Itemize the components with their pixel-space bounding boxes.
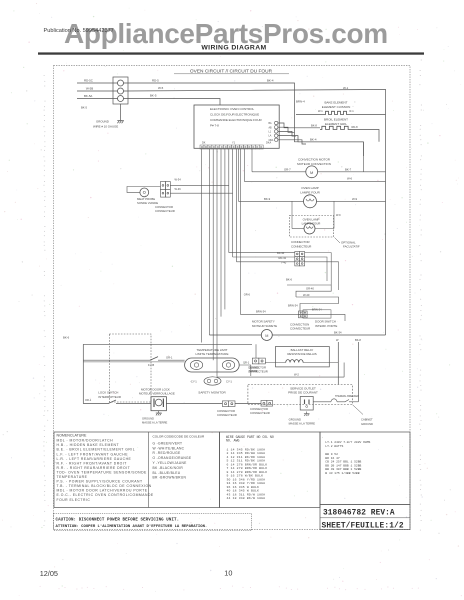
wire probe to harness a (170, 184, 229, 186)
wire harness 3 (212, 149, 214, 360)
wire box to bus (352, 401, 358, 403)
wire drop to J4 (255, 344, 257, 358)
svg-text:10: 10 (224, 569, 232, 578)
svg-text:ATTENTION: COUPER L'ALIMENTATI: ATTENTION: COUPER L'ALIMENTATION AVANT D… (56, 524, 208, 529)
svg-text:LIMITE TEMPERATURE: LIMITE TEMPERATURE (196, 352, 229, 356)
wire J3 to door switch circuit (307, 314, 345, 321)
svg-text:W-9: W-9 (336, 214, 341, 217)
wire lock motor to J5 (166, 403, 222, 405)
ground outlet (304, 412, 310, 417)
svg-text:DKA: DKA (266, 142, 271, 145)
svg-text:NO. AWG: NO. AWG (226, 439, 239, 443)
wire to J2 pin3 (237, 261, 295, 263)
motor brushes (153, 399, 155, 408)
svg-text:CONNECTEUR: CONNECTEUR (217, 413, 237, 417)
svg-text:CY-1: CY-1 (226, 379, 232, 383)
svg-text:MASSE A LA TERRE: MASSE A LA TERRE (142, 421, 168, 425)
broil element resistor (320, 126, 350, 129)
EOC relay contact L1 (275, 130, 278, 133)
breaker symbol (313, 399, 349, 402)
svg-text:E.O.C.- ELECTRIC OVEN CONTROL/: E.O.C.- ELECTRIC OVEN CONTROL/COMMANDE (57, 493, 154, 497)
svg-text:LAMPE FOUR: LAMPE FOUR (300, 191, 320, 195)
wire BK-9 to oven lamp (238, 200, 303, 202)
svg-text:RESISTANCE RELAIS: RESISTANCE RELAIS (287, 352, 316, 356)
svg-text:FOUR ELECTRIC: FOUR ELECTRIC (57, 498, 91, 502)
wire EOC L1 (278, 131, 296, 136)
svg-text:AB: AB (269, 126, 273, 129)
svg-text:COMMANDE ELECTRONIQUE FOUR: COMMANDE ELECTRONIQUE FOUR (210, 118, 263, 122)
svg-text:RD-43: RD-43 (279, 256, 287, 260)
svg-text:INTERRUPTEUR: INTERRUPTEUR (98, 395, 121, 399)
svg-text:BK-5A: BK-5A (84, 94, 92, 98)
svg-text:RD-8: RD-8 (352, 125, 359, 129)
svg-text:GROUND: GROUND (96, 120, 109, 124)
EOC relay contact LA (275, 134, 278, 137)
wire probe loop (127, 187, 161, 193)
wire bus BK down (357, 342, 359, 402)
svg-text:CAUTION: DISCONNECT POWER BEFO: CAUTION: DISCONNECT POWER BEFORE SERVICI… (56, 518, 180, 522)
svg-text:B 43 175 1/3BB 52BB: B 43 175 1/3BB 52BB (325, 471, 359, 475)
wire stair 1 (287, 285, 331, 297)
svg-text:44 18 348 BK/W 18GA: 44 18 348 BK/W 18GA (227, 496, 266, 500)
convection motor M1 (306, 166, 318, 178)
svg-text:ELEMENT CUISSON: ELEMENT CUISSON (322, 105, 351, 109)
wire RD-5 L1 feed (124, 83, 295, 132)
svg-text:CONVECTEUR: CONVECTEUR (290, 327, 310, 331)
svg-text:BL -BLUE/BLEU: BL -BLUE/BLEU (153, 471, 181, 475)
svg-text:MOTEUR CONVECTION: MOTEUR CONVECTION (297, 162, 331, 166)
svg-text:W-40: W-40 (303, 293, 310, 297)
wire oven lamp to bus (317, 200, 386, 202)
svg-text:BK-6: BK-6 (286, 278, 292, 282)
svg-text:RD-5C: RD-5C (84, 78, 93, 82)
legend column divider (147, 432, 149, 508)
svg-text:CONNECTEUR: CONNECTEUR (155, 209, 175, 213)
EOC relay contact AB (275, 126, 278, 129)
svg-text:BK-5: BK-5 (81, 105, 87, 109)
svg-text:BRN-4: BRN-4 (296, 100, 305, 104)
svg-text:CABINET: CABINET (361, 418, 373, 422)
schematic border frame (54, 66, 411, 530)
legend table frame (54, 432, 220, 508)
svg-text:CBA: CBA (269, 139, 274, 142)
svg-text:MDL - MOTOR/DOOR/LATCH: MDL - MOTOR/DOOR/LATCH (57, 439, 114, 443)
terminal L2 (118, 96, 124, 102)
electronic oven control EOC box (194, 105, 279, 148)
wire harness 7 (228, 149, 230, 253)
wire limiter right (239, 365, 251, 376)
wire riser relay to W row (343, 363, 345, 378)
svg-text:OR-40: OR-40 (306, 287, 314, 291)
wire W-5B supply neutral (77, 90, 118, 92)
svg-text:GROUND: GROUND (142, 417, 154, 421)
probe connector J1 (161, 182, 171, 198)
wire harness 13 (251, 149, 253, 172)
wire harness 10 (237, 149, 239, 201)
svg-text:BK-4: BK-4 (310, 138, 317, 142)
connector J5 (222, 401, 235, 407)
svg-text:BK-8: BK-8 (355, 338, 361, 342)
svg-text:M: M (310, 170, 313, 175)
svg-text:OR-1: OR-1 (166, 355, 173, 359)
svg-text:P# 7-8: P# 7-8 (210, 123, 219, 127)
thermostat eye right (222, 360, 234, 369)
svg-text:ELEMENT GRIL: ELEMENT GRIL (325, 122, 347, 126)
door latch assembly dashed box (109, 334, 151, 402)
svg-text:Publication No. 5995442377: Publication No. 5995442377 (44, 28, 114, 34)
svg-text:OR-7: OR-7 (284, 167, 291, 171)
pointer cabinet ground (353, 405, 363, 415)
optional lamp filament (306, 227, 313, 229)
wire BRN-34 left (240, 313, 298, 315)
svg-text:CB 24 257 BBL 1 52BB: CB 24 257 BBL 1 52BB (325, 461, 361, 464)
EOC pin strip connector P1 (200, 145, 263, 149)
optional oven lamp E2 (304, 223, 315, 234)
svg-text:OVEN CIRCUIT // CIRCUIT DU FOU: OVEN CIRCUIT // CIRCUIT DU FOUR (190, 68, 273, 74)
wire to latch switch (83, 359, 150, 361)
wire to convection motor (252, 171, 306, 173)
bake relay K1 box (276, 347, 330, 367)
wire to J2 pin1 (229, 252, 295, 254)
door lock motor M3 box (151, 397, 166, 411)
svg-text:12/05: 12/05 (40, 569, 58, 578)
oven lamp E1 (304, 195, 317, 208)
spacer (221, 432, 223, 508)
svg-text:WIRE # 10 GAUGE: WIRE # 10 GAUGE (93, 124, 118, 128)
wire breaker out (349, 401, 352, 403)
wire W-5 neutral feed (124, 90, 386, 92)
svg-text:BB 49 307 BBB 1 52BB: BB 49 307 BBB 1 52BB (325, 468, 361, 471)
wire BK-6 vertical (82, 344, 84, 403)
wire J2 right returns (305, 253, 339, 290)
svg-text:W-9: W-9 (352, 197, 358, 201)
svg-text:MOTEUR SURETE: MOTEUR SURETE (252, 324, 277, 328)
lamp filament (306, 199, 314, 201)
bake element resistor (324, 111, 348, 114)
svg-text:W-1: W-1 (343, 86, 349, 90)
svg-text:OR-6: OR-6 (244, 293, 251, 297)
wire convection motor to bus (318, 171, 386, 173)
ground door lock motor (156, 411, 162, 416)
wire gauge table frame (220, 432, 321, 508)
svg-text:NOMENCLATURE: NOMENCLATURE (57, 434, 87, 438)
svg-text:CONNECTEUR: CONNECTEUR (250, 411, 270, 415)
wire harness 2 (208, 149, 210, 335)
svg-text:BA: BA (269, 122, 273, 125)
wire optional lamp left (292, 228, 304, 230)
optional lamp enclosure dashed box (290, 216, 334, 238)
svg-text:PRISE DE COURANT: PRISE DE COURANT (288, 391, 318, 395)
wire EOC LA to L2 bus (278, 136, 363, 156)
svg-text:WIRING DIAGRAM: WIRING DIAGRAM (201, 45, 266, 52)
svg-text:H.B. - HIDDEN BAKE ELEMENT: H.B. - HIDDEN BAKE ELEMENT (57, 443, 120, 447)
svg-text:BR -BROWN/BRUN: BR -BROWN/BRUN (153, 476, 187, 480)
svg-text:W-2: W-2 (294, 373, 299, 377)
svg-text:BK -BLACK/NOIR: BK -BLACK/NOIR (153, 466, 184, 470)
terminal block TB1 (113, 77, 128, 104)
wire W row to outlet (217, 376, 344, 378)
svg-text:-CY-1: -CY-1 (190, 379, 197, 383)
wire stair 2 (296, 297, 339, 312)
svg-text:Y-40: Y-40 (281, 260, 287, 264)
svg-text:T.B. - TERMINAL BLOCK/BLOC DE: T.B. - TERMINAL BLOCK/BLOC DE CONNEXION (57, 484, 152, 488)
svg-text:SAFETY MONITOR: SAFETY MONITOR (198, 391, 226, 395)
svg-text:R.R. - RIGHT REAR/ARRIERE DRO: R.R. - RIGHT REAR/ARRIERE DROIT (57, 466, 131, 470)
wire element return rail (295, 132, 364, 142)
svg-text:BK-5: BK-5 (150, 94, 157, 98)
svg-text:W-6: W-6 (347, 177, 353, 181)
door lock motor rotor (155, 399, 162, 406)
svg-text:BK-8: BK-8 (311, 124, 317, 128)
latch switch S1 (150, 357, 158, 361)
thermostat body TOD (185, 358, 240, 372)
svg-text:CONNECTEUR: CONNECTEUR (291, 244, 311, 248)
svg-text:TEMPERATURE: TEMPERATURE (57, 475, 88, 479)
svg-text:R.F. - RIGHT FRONT/AVANT DROI: R.F. - RIGHT FRONT/AVANT DROIT (57, 461, 127, 465)
connector J2 (295, 252, 305, 266)
wire neutral row (244, 180, 385, 182)
svg-text:MOTEUR VERROUILLAGE: MOTEUR VERROUILLAGE (139, 392, 175, 396)
svg-text:LT.2 WATTS: LT.2 WATTS (325, 445, 343, 448)
wire relay coil out (303, 362, 338, 364)
svg-text:CLOCK DE FOUR ELECTRONIQUE: CLOCK DE FOUR ELECTRONIQUE (210, 112, 259, 116)
svg-text:OR-1: OR-1 (243, 360, 250, 364)
svg-text:LA: LA (269, 135, 272, 138)
svg-text:L.R. - LEFT REAR/ARRIERE GAUC: L.R. - LEFT REAR/ARRIERE GAUCHE (57, 457, 132, 461)
svg-text:BK-9: BK-9 (264, 197, 271, 201)
wire harness 5 (220, 149, 222, 317)
svg-text:INTERR. PORTE: INTERR. PORTE (315, 324, 337, 328)
svg-text:BK-30: BK-30 (277, 251, 285, 255)
wire broil right to bus (350, 130, 379, 142)
wire RD-5C supply L1 (77, 82, 118, 84)
wire EOC AB (278, 127, 295, 132)
svg-text:BRN-34: BRN-34 (288, 303, 298, 307)
svg-text:R-1: R-1 (350, 109, 355, 113)
svg-text:MDL - MOTOR DOOR LATCH/VERROU: MDL - MOTOR DOOR LATCH/VERROU PORTE (57, 489, 148, 493)
svg-text:W-1: W-1 (318, 109, 323, 113)
svg-text:Y -YELLOW/JAUNE: Y -YELLOW/JAUNE (153, 461, 188, 465)
wire to J2 pin2 (233, 256, 295, 258)
title block divider (320, 517, 410, 519)
cooling fan motor M2 (261, 330, 272, 341)
door interlock outline (303, 310, 331, 318)
svg-text:BK-4: BK-4 (267, 78, 274, 82)
svg-text:MASSE A LA TERRE: MASSE A LA TERRE (289, 422, 316, 426)
svg-text:P.S. - POWER SUPPLY/SOURCE CO: P.S. - POWER SUPPLY/SOURCE COURANT (57, 480, 143, 484)
wire BK-5 L2 feed (124, 99, 221, 106)
EOC relay contact BA (275, 121, 278, 124)
wire J5 to J6 (235, 403, 261, 405)
wire latch switch to limiter (158, 359, 185, 361)
svg-text:BK-34: BK-34 (334, 330, 342, 334)
relay coil K1 (286, 360, 303, 363)
ground chassis (117, 118, 124, 123)
terminal L1 (118, 80, 124, 86)
wire probe to harness b (170, 192, 232, 194)
svg-text:SHEET/FEUILLE:1/2: SHEET/FEUILLE:1/2 (322, 521, 404, 530)
meat probe sensor (140, 188, 149, 197)
wire harness 8 (232, 149, 234, 257)
svg-text:DK: DK (202, 142, 206, 145)
svg-text:W-5B: W-5B (86, 86, 93, 90)
wire BK-6 horizontal feed (83, 343, 252, 345)
svg-text:O -ORANGE/ORANGE: O -ORANGE/ORANGE (153, 456, 192, 460)
svg-text:RD-5: RD-5 (152, 78, 159, 82)
svg-text:BB 29 147 BBB 1 52BB: BB 29 147 BBB 1 52BB (325, 464, 361, 467)
wire harness 6 (224, 149, 226, 309)
probe detail (143, 191, 145, 193)
svg-text:318046782 REV:A: 318046782 REV:A (323, 510, 395, 518)
power supply board dashed box (248, 385, 353, 405)
svg-text:BK-7: BK-7 (345, 167, 352, 171)
safety thermo oval (204, 377, 221, 385)
title block frame (320, 505, 410, 530)
wire harness 9 (236, 149, 238, 262)
svg-text:GROUND: GROUND (361, 422, 373, 426)
svg-text:W -WHITE/BLANC: W -WHITE/BLANC (153, 446, 185, 450)
svg-text:LT.1 240V 7-W/Y 208V OHMS: LT.1 240V 7-W/Y 208V OHMS (325, 440, 370, 444)
wire harness 12 (243, 149, 245, 181)
wire EOC CBA (278, 140, 306, 144)
svg-text:TOD- OVEN TEMPERATURE SENSOR/: TOD- OVEN TEMPERATURE SENSOR/SONDE (57, 470, 148, 474)
svg-text:ELECTRONIC OVEN CONTROL: ELECTRONIC OVEN CONTROL (210, 107, 255, 111)
title underline (174, 73, 289, 75)
wire fan motor to bus (272, 334, 385, 336)
wire harness 11 (239, 149, 241, 314)
wire right bus neutral (385, 90, 387, 336)
svg-text:BRN-34: BRN-34 (256, 310, 266, 314)
pointer to optional note (335, 238, 341, 244)
svg-text:W-5: W-5 (158, 86, 164, 90)
svg-text:COLOR CODE/CODE DE COULEUR: COLOR CODE/CODE DE COULEUR (153, 435, 206, 439)
wire EOC BA to broil element (278, 123, 320, 128)
connector J6 (261, 401, 273, 407)
svg-text:B.E. - BROIL ELEMENT/ELEMENT: B.E. - BROIL ELEMENT/ELEMENT GRIL (57, 448, 136, 452)
right spec table frame (320, 432, 410, 505)
outlet receptacle (300, 397, 313, 411)
svg-text:R -RED/ROUGE: R -RED/ROUGE (153, 451, 181, 455)
svg-text:W-36: W-36 (175, 187, 182, 191)
wire harness 1 (201, 149, 203, 343)
svg-text:G -GREEN/VERT: G -GREEN/VERT (153, 441, 183, 445)
terminal N (118, 88, 124, 94)
wire optional lamp right (315, 228, 334, 230)
outlet pins (304, 400, 306, 405)
svg-text:BR 16 47: BR 16 47 (325, 457, 340, 460)
svg-text:FERME: FERME (249, 370, 258, 373)
wire lamp parallel taps (292, 201, 334, 228)
svg-text:BB 9 52: BB 9 52 (325, 453, 338, 456)
svg-text:W-34: W-34 (175, 178, 182, 182)
svg-text:OR-1: OR-1 (85, 398, 92, 402)
connector J3 (299, 311, 308, 318)
wire to relay coil (265, 362, 285, 364)
thermostat eye left (190, 360, 202, 369)
lock switch S2 (83, 400, 151, 404)
header rule (38, 52, 424, 54)
svg-text:THERMAL BREAKER: THERMAL BREAKER (335, 395, 359, 398)
wire bus W down (337, 342, 339, 385)
connector J4 (252, 358, 265, 364)
wire BK-5A supply L2 (77, 98, 118, 100)
wire harness 4 (216, 149, 218, 377)
wire bus joint (362, 142, 364, 172)
wire to bake element (296, 114, 324, 116)
svg-text:L.F. - LEFT FRONT/AVANT GAUCH: L.F. - LEFT FRONT/AVANT GAUCHE (57, 452, 129, 456)
EOC relay contact CBA (275, 138, 278, 141)
svg-text:BK-6: BK-6 (63, 336, 70, 340)
svg-text:M: M (265, 334, 268, 338)
caution box (54, 514, 252, 531)
wire to chassis ground (120, 104, 122, 118)
svg-text:FACULTATIF: FACULTATIF (343, 245, 360, 249)
wire bake right to neutral bus (348, 114, 386, 116)
wire to fan motor (209, 334, 261, 336)
wire latch row return (83, 361, 184, 363)
